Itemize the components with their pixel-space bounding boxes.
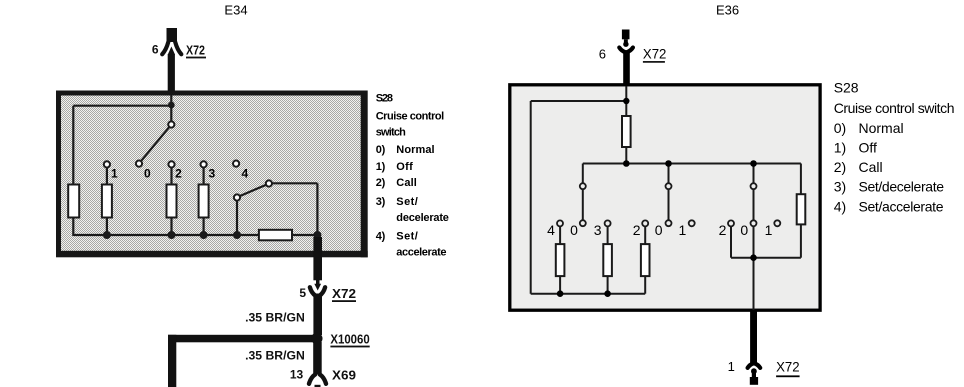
svg-text:0: 0	[570, 222, 578, 238]
svg-text:4): 4)	[834, 198, 846, 214]
svg-text:Set/: Set/	[396, 231, 418, 243]
svg-text:3: 3	[209, 167, 216, 181]
svg-text:2: 2	[719, 222, 727, 238]
svg-text:.35 BR/GN: .35 BR/GN	[245, 351, 305, 363]
svg-text:Normal: Normal	[859, 120, 904, 136]
svg-text:E34: E34	[224, 3, 247, 18]
svg-text:Off: Off	[859, 140, 878, 156]
svg-text:5: 5	[299, 286, 306, 300]
svg-text:E36: E36	[716, 3, 739, 18]
svg-text:3): 3)	[834, 179, 846, 195]
svg-text:X72: X72	[186, 44, 205, 58]
svg-text:.35 BR/GN: .35 BR/GN	[245, 313, 305, 325]
svg-text:X72: X72	[776, 359, 800, 375]
svg-text:0: 0	[740, 222, 748, 238]
svg-text:3: 3	[594, 222, 602, 238]
svg-text:2): 2)	[376, 177, 386, 189]
svg-text:0): 0)	[376, 144, 386, 156]
svg-text:switch: switch	[376, 127, 406, 139]
svg-text:4): 4)	[376, 231, 386, 243]
svg-text:X10060: X10060	[330, 333, 369, 347]
svg-text:1): 1)	[376, 161, 386, 173]
svg-text:S28: S28	[834, 80, 859, 96]
svg-text:0: 0	[655, 222, 663, 238]
svg-text:6: 6	[599, 47, 606, 62]
svg-text:2): 2)	[834, 159, 846, 175]
svg-text:1: 1	[679, 222, 687, 238]
svg-text:13: 13	[290, 368, 304, 382]
svg-text:accelerate: accelerate	[396, 247, 446, 259]
svg-text:1: 1	[728, 359, 735, 374]
svg-text:Set/: Set/	[396, 196, 418, 208]
svg-text:decelerate: decelerate	[396, 212, 449, 224]
svg-text:1: 1	[765, 222, 773, 238]
svg-text:Cruise control switch: Cruise control switch	[834, 100, 955, 116]
svg-text:1: 1	[111, 167, 118, 181]
svg-text:4: 4	[547, 222, 555, 238]
svg-text:2: 2	[633, 222, 641, 238]
svg-text:6: 6	[152, 43, 159, 57]
svg-text:2: 2	[175, 167, 182, 181]
svg-text:0: 0	[144, 167, 151, 181]
svg-text:Set/decelerate: Set/decelerate	[859, 179, 945, 195]
svg-text:S28: S28	[376, 92, 393, 104]
svg-text:4: 4	[242, 167, 249, 181]
svg-text:Call: Call	[859, 159, 883, 175]
svg-text:1): 1)	[834, 140, 846, 156]
svg-text:Cruise control: Cruise control	[376, 110, 445, 122]
svg-text:X69: X69	[332, 369, 356, 383]
svg-text:Set/accelerate: Set/accelerate	[859, 198, 944, 214]
svg-text:X72: X72	[332, 287, 356, 301]
svg-text:0): 0)	[834, 120, 846, 136]
svg-text:Normal: Normal	[396, 144, 434, 156]
svg-text:3): 3)	[376, 196, 386, 208]
svg-text:Off: Off	[396, 161, 413, 173]
svg-text:X72: X72	[643, 46, 667, 62]
svg-text:Call: Call	[396, 177, 417, 189]
